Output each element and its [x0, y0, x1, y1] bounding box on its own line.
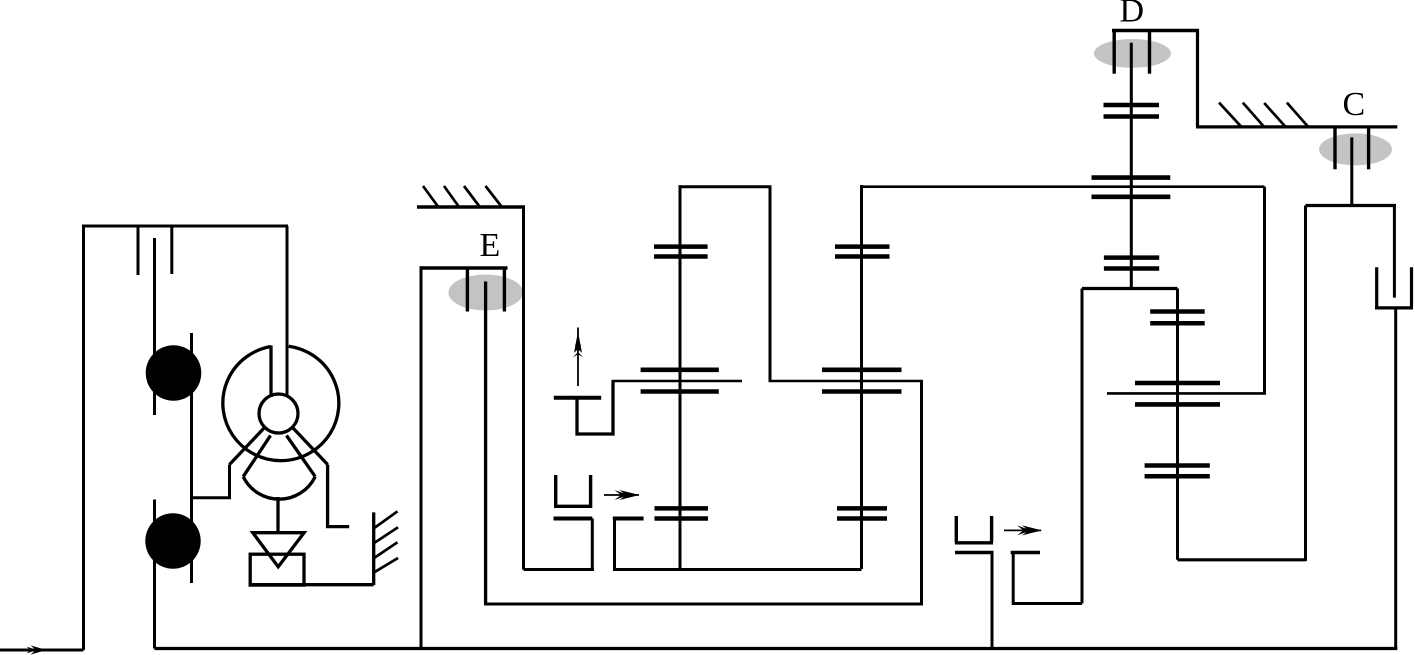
left housing shaft down to bottom — [420, 266, 423, 648]
upper shift fork U channel — [577, 382, 613, 434]
pulley wheel 1 (filled) — [146, 345, 202, 401]
svg-text:E: E — [480, 227, 501, 264]
large disc with top slot — [223, 346, 339, 460]
riser from connector to carrier line — [769, 187, 772, 381]
gear pair on right leg lower — [1145, 466, 1210, 477]
top connector between columns — [679, 185, 772, 188]
output box top — [1306, 204, 1397, 207]
wire from D bar to fixed ceiling of C — [1196, 29, 1397, 127]
ceiling hatching near C — [1219, 103, 1308, 127]
right fork T-bar — [613, 517, 644, 521]
lower shift fork T-bar — [554, 517, 593, 521]
input arrowhead — [27, 645, 47, 654]
crank pin small circle — [259, 394, 298, 433]
column-1 planet bottom bar — [641, 389, 719, 394]
pivot triangle — [253, 533, 304, 567]
belt left edge upper — [153, 238, 156, 415]
right arm leg and stub — [328, 465, 350, 527]
frame left edge wire — [82, 226, 85, 650]
main bottom line — [155, 647, 1398, 650]
pendulum sector bottom arc — [243, 477, 315, 500]
svg-text:D: D — [1120, 0, 1145, 30]
sliding coupling cup — [1375, 267, 1413, 308]
gear pair on D shaft — [1104, 105, 1160, 117]
carrier U right riser — [920, 381, 923, 604]
clutch D bar — [1112, 29, 1199, 32]
gear pair column-2 bottom — [837, 508, 887, 518]
clutch D centre shaft (input of right planetary) — [1130, 43, 1133, 289]
right fork stem and link to gear shafts — [613, 519, 862, 570]
wall (fixed support) — [372, 512, 375, 585]
selector T-bar near output — [955, 551, 994, 554]
svg-text:C: C — [1343, 86, 1366, 123]
link from belt to rocker arm — [192, 465, 230, 498]
pendulum sector left edge — [243, 436, 270, 477]
lower shift fork cup — [554, 475, 592, 506]
gear pair column-1 bottom — [655, 508, 709, 518]
clutch D prong right — [1148, 31, 1151, 74]
clutch D drum (grey ellipse) — [1094, 39, 1171, 68]
selector stem to bottom line — [991, 553, 994, 649]
gamma piece bar — [1011, 551, 1040, 554]
gear pair column-2 top — [835, 247, 890, 257]
shaft from ceiling down (sun shaft) — [522, 207, 525, 570]
brake E centre shaft down and U link to carrier — [484, 282, 487, 603]
frame top wire — [82, 225, 288, 228]
ceiling hatching — [423, 186, 502, 207]
bottom link to output box — [1178, 558, 1307, 561]
pivot base rectangle — [250, 554, 304, 585]
carrier U bottom — [484, 603, 923, 606]
right planetary-2 top bar — [1135, 381, 1220, 386]
pendulum stem — [276, 497, 279, 533]
belt right edge upper — [190, 333, 193, 583]
selector cup near output — [955, 516, 993, 543]
carrier bracket top — [1082, 287, 1178, 290]
gear pair column-1 top — [654, 247, 708, 257]
right planetary-1 bottom bar — [1092, 195, 1171, 200]
gamma piece stem — [1012, 553, 1015, 606]
wall hatching — [374, 511, 398, 572]
input shaft line with arrow — [0, 649, 84, 652]
column-1 planet top bar — [641, 367, 719, 372]
clutch C drum (grey ellipse) — [1319, 133, 1392, 165]
lower fork stem and link — [524, 519, 595, 570]
upper shift fork T-bar — [554, 396, 601, 400]
brake E prong left — [466, 268, 469, 312]
bracket right leg — [1176, 289, 1179, 560]
bracket bottom link — [1013, 602, 1082, 605]
output box left edge — [1304, 206, 1307, 562]
long line from column-2 to right planetary — [862, 185, 1265, 188]
carrier line B' — [769, 380, 924, 383]
right planetary-1 top bar — [1092, 175, 1171, 180]
bearing tick 1 — [137, 226, 140, 275]
gear pair below planetary-1 — [1104, 258, 1159, 269]
output box right edge into coupling — [1393, 206, 1396, 298]
up arrow shaft — [577, 328, 579, 387]
pulley wheel 2 (filled) — [145, 513, 200, 568]
pendulum sector right edge — [287, 436, 316, 477]
gear pair on right leg upper — [1150, 312, 1205, 324]
right planetary-2 bottom bar — [1135, 402, 1220, 407]
clutch C prong right — [1367, 127, 1370, 169]
slide arrow (right) head — [1017, 525, 1042, 535]
slide arrow (middle) shaft — [604, 494, 639, 496]
riser right end of long line — [1263, 187, 1266, 394]
slot left line — [269, 346, 272, 398]
right planetary-2 middle line — [1107, 392, 1266, 395]
clutch D prong left — [1112, 31, 1115, 74]
belt left edge lower, to bottom line — [153, 500, 156, 649]
bracket left leg — [1081, 289, 1084, 604]
base line to wall — [250, 583, 374, 586]
fixed ceiling over E — [417, 205, 525, 209]
column-1 shaft — [679, 185, 682, 569]
left arm of Y — [230, 427, 265, 464]
column-2 planet top bar — [822, 367, 902, 372]
brake E bar — [420, 266, 508, 269]
slide arrow (right) shaft — [1004, 529, 1041, 531]
column-2 planet bottom bar — [822, 389, 902, 394]
brake E prong right — [503, 268, 506, 312]
up arrowhead — [573, 332, 583, 358]
carrier line B (left planet bar) — [612, 380, 743, 383]
slide arrow (middle) head — [615, 490, 640, 500]
right arm of Y — [292, 427, 327, 464]
brake E drum (grey ellipse) — [448, 275, 523, 311]
output shaft down — [1394, 308, 1397, 649]
bearing tick 2 — [170, 226, 173, 274]
clutch C prong left — [1333, 127, 1336, 169]
column-2 shaft — [860, 185, 863, 569]
input shaft of disc, frame right edge — [286, 226, 289, 397]
clutch C centre shaft — [1350, 137, 1353, 205]
